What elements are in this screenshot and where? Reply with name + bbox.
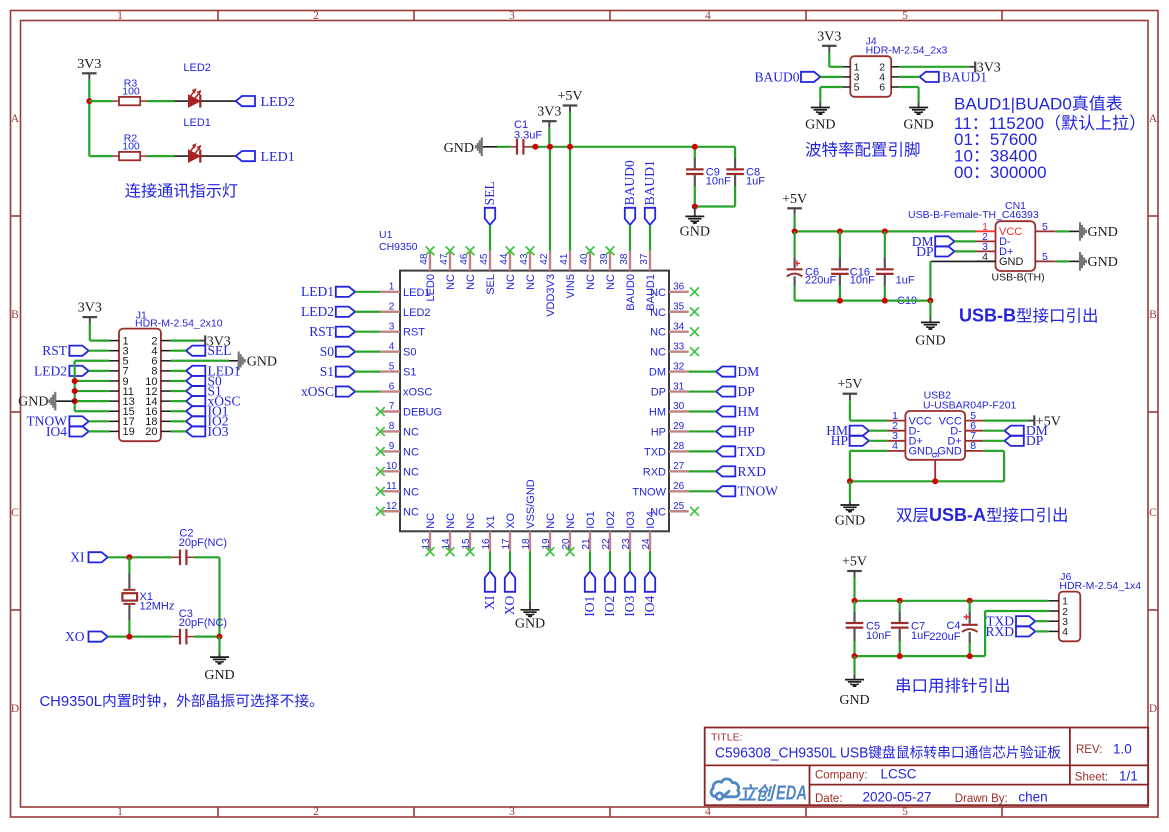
- svg-text:VSS/GND: VSS/GND: [525, 479, 537, 529]
- wire 3V3 to J4 pin 1: [829, 52, 842, 67]
- svg-text:NC: NC: [465, 274, 477, 290]
- svg-text:BAUD0: BAUD0: [622, 160, 637, 205]
- svg-text:NC: NC: [650, 347, 666, 359]
- power flag 3V3 (J1 pin2): [199, 334, 231, 349]
- connector USB2 U-USBAR04P-F201 body: [887, 389, 1016, 481]
- net flag LED1: [236, 150, 295, 165]
- svg-text:GND: GND: [805, 117, 835, 132]
- svg-text:HM: HM: [649, 407, 666, 419]
- svg-text:100: 100: [122, 141, 140, 153]
- svg-text:3V3: 3V3: [817, 29, 841, 44]
- svg-text:LED2: LED2: [183, 62, 211, 74]
- pin 2 LED2 (U1 left): [380, 301, 430, 318]
- pin 28 TXD (U1 right): [644, 441, 689, 458]
- capacitor C5 10nF: [846, 601, 892, 656]
- wire U1 pin 27 to RXD: [689, 470, 716, 472]
- svg-text:GND: GND: [247, 354, 277, 369]
- svg-text:连接通讯指示灯: 连接通讯指示灯: [125, 183, 238, 201]
- pin 48 LED0 (U1 top): [419, 251, 437, 302]
- junction C1 rail: [532, 144, 538, 150]
- wire U1 pin 21 to IO1: [589, 551, 591, 571]
- wire CN1 bottom GND rail: [795, 300, 931, 302]
- svg-text:RXD: RXD: [643, 466, 666, 478]
- svg-text:3.3uF: 3.3uF: [514, 129, 542, 141]
- svg-text:LED2: LED2: [261, 95, 295, 110]
- net flag LED2 (J1 pin7): [34, 363, 89, 378]
- ground GND (J4 pin6): [903, 101, 933, 132]
- svg-text:IO1: IO1: [585, 511, 597, 529]
- net flag DM (USB2 pin6): [1005, 423, 1048, 438]
- capacitor C2 20pF(NC): [172, 528, 227, 566]
- svg-text:16: 16: [481, 538, 492, 550]
- junction +5V rail: [567, 144, 573, 150]
- net flag LED1 (U1 left): [301, 284, 355, 299]
- svg-text:RXD: RXD: [738, 464, 767, 479]
- svg-text:5: 5: [1042, 221, 1048, 233]
- resistor R2 100: [113, 133, 148, 161]
- ground GND (C9/C8): [680, 207, 710, 240]
- connector CN1 USB-B-Female-TH_C46393 body: [908, 200, 1055, 283]
- wire RST to U1 pin 3: [355, 331, 380, 333]
- net flag IO4 (U1 bottom): [642, 571, 657, 616]
- svg-text:XO: XO: [505, 512, 517, 528]
- svg-text:HDR-M-2.54_2x10: HDR-M-2.54_2x10: [135, 317, 223, 329]
- svg-text:47: 47: [439, 253, 450, 265]
- pin 4 S0 (U1 left): [380, 341, 416, 358]
- net flag XO: [65, 629, 108, 644]
- pin 31 DP (U1 right): [651, 381, 689, 398]
- svg-text:C596308_CH9350L USB键盘鼠标转串口通信芯片: C596308_CH9350L USB键盘鼠标转串口通信芯片验证板: [715, 744, 1061, 761]
- net flag S0 (J1 pin10): [186, 373, 222, 388]
- svg-text:GND: GND: [915, 334, 945, 349]
- svg-text:LCSC: LCSC: [881, 767, 917, 782]
- svg-text:4: 4: [389, 341, 395, 352]
- svg-text:5: 5: [902, 10, 908, 22]
- pin 46 NC (U1 top): [459, 251, 477, 290]
- resistor R3 100: [113, 78, 148, 106]
- crystal X1 12MHz: [122, 557, 174, 636]
- logo EasyEDA: [711, 779, 807, 805]
- wire RST to J1 pin 3: [89, 350, 110, 352]
- pin 45 SEL (U1 top): [479, 251, 497, 295]
- svg-text:2: 2: [313, 806, 319, 818]
- wire 3V3 to R3: [89, 100, 112, 102]
- pin 37 BAUD1 (U1 top): [639, 251, 657, 311]
- svg-text:NC: NC: [403, 486, 419, 498]
- svg-text:XI: XI: [70, 550, 85, 565]
- pin 11 NC (U1 left): [380, 481, 419, 498]
- junctions USB2 ground: [847, 478, 938, 484]
- capacitor C4 220uF: [929, 601, 977, 656]
- svg-text:4: 4: [982, 251, 988, 263]
- svg-text:5: 5: [854, 82, 860, 94]
- capacitor C19 1uF: [876, 231, 917, 306]
- power flag GND (C1): [444, 138, 482, 157]
- wire J4 pin6 to GND: [899, 87, 918, 101]
- svg-text:GND: GND: [839, 693, 869, 708]
- svg-text:11: 11: [386, 481, 397, 492]
- pin 29 HP (U1 right): [651, 421, 689, 438]
- svg-text:SEL: SEL: [485, 274, 497, 295]
- net flag BAUD0 (J4 pin3): [754, 69, 820, 84]
- wire U1 pin 30 to HM: [689, 410, 716, 412]
- net flag DM (CN1 pin2): [912, 234, 955, 249]
- svg-text:46: 46: [459, 253, 470, 265]
- pin 8 NC (U1 left): [380, 421, 419, 438]
- svg-text:42: 42: [539, 253, 550, 265]
- junctions J6 top rail: [852, 598, 973, 604]
- power flag 3V3 (J4 pin1): [817, 29, 841, 52]
- svg-text:双层USB-A型接口引出: 双层USB-A型接口引出: [896, 505, 1069, 525]
- svg-text:2020-05-27: 2020-05-27: [863, 790, 932, 805]
- svg-text:20pF(NC): 20pF(NC): [179, 617, 227, 629]
- svg-text:USB-B-Female-TH_C46393: USB-B-Female-TH_C46393: [908, 209, 1039, 221]
- svg-text:44: 44: [499, 253, 510, 265]
- svg-text:CH9350: CH9350: [379, 241, 418, 253]
- svg-text:RXD: RXD: [985, 624, 1014, 639]
- capacitor C16 10nF: [831, 231, 875, 300]
- pin 44 NC (U1 top): [499, 251, 517, 290]
- svg-text:DM: DM: [649, 367, 666, 379]
- svg-text:1uF: 1uF: [896, 274, 915, 286]
- svg-text:6: 6: [879, 82, 885, 94]
- svg-text:串口用排针引出: 串口用排针引出: [895, 678, 1011, 696]
- svg-text:S0: S0: [320, 344, 335, 359]
- svg-text:GND: GND: [999, 256, 1024, 268]
- svg-text:27: 27: [673, 461, 685, 472]
- svg-text:GND: GND: [835, 513, 865, 528]
- pin 30 HM (U1 right): [649, 401, 689, 418]
- capacitor C3 20pF(NC): [172, 608, 227, 645]
- svg-text:NC: NC: [445, 274, 457, 290]
- power flag GND (J1 pin13): [18, 392, 75, 411]
- svg-text:NC: NC: [465, 513, 477, 529]
- wire J4 pin 4 to BAUD1: [899, 76, 919, 78]
- svg-text:+5V: +5V: [842, 555, 867, 570]
- svg-text:TNOW: TNOW: [632, 486, 666, 498]
- pin 6 xOSC (U1 left): [380, 381, 432, 398]
- wire USB2 pin 6 to DM: [983, 430, 1004, 432]
- svg-text:4: 4: [1062, 626, 1068, 638]
- wire LED2 to U1 pin 2: [355, 311, 380, 313]
- wire USB2 pin 7 to DP: [983, 440, 1004, 442]
- wire U1 pin 23 to IO3: [629, 551, 631, 571]
- wire DP to CN1 pin 3: [955, 250, 976, 252]
- wire BAUD0 to U1 pin 38: [629, 225, 631, 251]
- svg-text:BAUD1: BAUD1: [645, 274, 657, 311]
- wire LED2 to J1 pin 7: [89, 370, 110, 372]
- net flag RXD (J6 pin4): [985, 624, 1035, 639]
- svg-text:4: 4: [705, 10, 711, 22]
- pin 9 NC (U1 left): [380, 441, 419, 458]
- wire RXD to J6 pin 4: [1035, 630, 1048, 632]
- svg-text:SEL: SEL: [208, 343, 232, 358]
- pin 42 VDD3V3 (U1 top): [539, 251, 557, 317]
- svg-text:+5V: +5V: [837, 377, 862, 392]
- wire J1 pin 2 to 3V3: [171, 340, 199, 342]
- svg-text:GND: GND: [903, 117, 933, 132]
- power flag +5V (USB2): [837, 377, 862, 400]
- svg-text:A: A: [11, 113, 20, 125]
- svg-text:DP: DP: [916, 244, 933, 259]
- power flag +5V (to VIN5): [557, 89, 582, 112]
- wire U1 pin 18 to GND: [529, 551, 531, 601]
- title block: [705, 728, 1148, 806]
- svg-text:VDD3V3: VDD3V3: [545, 274, 557, 317]
- net flag HP (USB2 pin3): [831, 433, 869, 448]
- net flag BAUD1 (top): [642, 160, 657, 225]
- net flag IO1 (J1 pin16): [186, 404, 229, 419]
- power flag 3V3 (to VDD3V3): [537, 105, 561, 128]
- net flag IO4 (J1 pin19): [46, 424, 89, 439]
- net flag LED2 (U1 left): [301, 304, 355, 319]
- svg-text:USB-B型接口引出: USB-B型接口引出: [959, 306, 1099, 326]
- connector J4 HDR-M-2.54_2x3 body: [842, 35, 947, 96]
- svg-text:立创: 立创: [739, 784, 777, 804]
- svg-text:8: 8: [970, 440, 976, 452]
- wire LED1 to U1 pin 1: [355, 291, 380, 293]
- svg-text:XO: XO: [502, 595, 517, 615]
- svg-text:5: 5: [389, 361, 395, 372]
- svg-text:C: C: [11, 507, 19, 519]
- pin 16 X1 (U1 bottom): [481, 515, 497, 551]
- svg-text:RST: RST: [309, 324, 335, 339]
- svg-text:2: 2: [389, 301, 395, 312]
- svg-text:NC: NC: [585, 274, 597, 290]
- svg-text:36: 36: [673, 282, 685, 293]
- caption 双层USB-A型接口引出: [896, 505, 1069, 525]
- svg-text:21: 21: [581, 538, 592, 550]
- wire USB2 pin 5 to +5V: [983, 420, 1028, 422]
- junction C9 bottom: [692, 204, 698, 210]
- net flag xOSC (U1 left): [301, 384, 355, 399]
- svg-text:1.0: 1.0: [1113, 742, 1132, 757]
- svg-text:3: 3: [509, 10, 515, 22]
- wire BAUD1 to U1 pin 37: [649, 225, 651, 251]
- svg-text:NC: NC: [445, 513, 457, 529]
- svg-text:HP: HP: [831, 433, 848, 448]
- wire 3V3 to U1 pin 42: [548, 128, 551, 251]
- svg-text:LED1: LED1: [183, 117, 211, 129]
- svg-text:6: 6: [389, 381, 395, 392]
- connector J1 HDR-M-2.54_2x10 body: [110, 309, 223, 441]
- wire TNOW to J1 pin 17: [89, 420, 110, 422]
- caption crystal note: [40, 693, 324, 710]
- svg-text:1: 1: [117, 806, 123, 818]
- svg-text:BAUD1: BAUD1: [942, 69, 987, 84]
- svg-text:NC: NC: [525, 274, 537, 290]
- svg-text:5: 5: [902, 806, 908, 818]
- wire J1 pin 6 to GND: [171, 360, 238, 362]
- no-connect marks U1 right pins 36-33,25: [690, 287, 699, 515]
- svg-text:C: C: [1149, 507, 1157, 519]
- net flag SEL (top): [482, 181, 497, 225]
- svg-text:GND: GND: [515, 617, 545, 632]
- wire J1 pin 20 to IO3: [171, 430, 187, 432]
- wire R2 to LED1: [147, 155, 175, 157]
- pin 24 IO4 (U1 bottom): [641, 511, 657, 551]
- wire S0 to U1 pin 4: [355, 351, 380, 353]
- pin 25 NC (U1 right): [650, 501, 689, 518]
- net flag S1 (U1 left): [320, 364, 355, 379]
- svg-text:23: 23: [621, 538, 632, 550]
- svg-text:U1: U1: [379, 229, 393, 241]
- svg-text:00：300000: 00：300000: [954, 163, 1047, 182]
- svg-text:NC: NC: [545, 513, 557, 529]
- svg-text:Drawn By:: Drawn By:: [955, 793, 1008, 805]
- no-connect marks U1 left pins 7-12: [376, 407, 385, 516]
- junction C3/GND: [217, 634, 223, 640]
- svg-text:chen: chen: [1018, 790, 1047, 805]
- wire J6 bottom GND rail: [855, 655, 986, 657]
- junction C9 top: [692, 144, 698, 150]
- power flag 3V3 (LED circuit): [77, 57, 101, 80]
- svg-text:BAUD1: BAUD1: [642, 160, 657, 205]
- pin 32 DM (U1 right): [649, 361, 689, 378]
- wire J6 pin2 to GND rail: [985, 611, 1049, 656]
- wire S1 to U1 pin 5: [355, 371, 380, 373]
- net flag LED1 (J1 pin8): [186, 363, 241, 378]
- svg-text:20pF(NC): 20pF(NC): [179, 537, 227, 549]
- svg-text:3V3: 3V3: [77, 57, 101, 72]
- wire xOSC to U1 pin 6: [355, 390, 380, 392]
- svg-text:IO4: IO4: [645, 511, 657, 529]
- svg-text:TXD: TXD: [738, 444, 766, 459]
- svg-text:GND: GND: [1088, 255, 1118, 270]
- svg-text:S1: S1: [403, 367, 416, 379]
- ground GND (CN1): [915, 301, 945, 349]
- ground GND (J6): [839, 656, 869, 708]
- net flag IO3 (J1 pin20): [186, 424, 229, 439]
- wire U1 pin 31 to DP: [689, 390, 716, 392]
- svg-text:3V3: 3V3: [537, 105, 561, 120]
- svg-text:SEL: SEL: [482, 181, 497, 205]
- svg-text:GND: GND: [204, 668, 234, 683]
- wire U1 pin 24 to IO4: [649, 551, 651, 571]
- power flag +5V (J6): [842, 555, 867, 578]
- svg-text:NC: NC: [403, 446, 419, 458]
- pin 3 RST (U1 left): [380, 321, 425, 338]
- caption USB-B型接口引出: [959, 306, 1099, 326]
- svg-text:19: 19: [123, 426, 135, 438]
- LED diode LED2: [175, 62, 236, 108]
- svg-text:1: 1: [117, 10, 123, 22]
- svg-text:2: 2: [313, 10, 319, 22]
- svg-text:17: 17: [501, 538, 512, 550]
- junction XO: [126, 634, 132, 640]
- svg-text:GND: GND: [1088, 225, 1118, 240]
- svg-text:波特率配置引脚: 波特率配置引脚: [805, 142, 921, 160]
- svg-text:BAUD1|BUAD0真值表: BAUD1|BUAD0真值表: [954, 94, 1123, 113]
- wire U1 pin 29 to HP: [689, 430, 716, 432]
- svg-text:29: 29: [673, 421, 685, 432]
- pin 22 IO2 (U1 bottom): [601, 511, 617, 551]
- svg-text:220uF: 220uF: [805, 274, 836, 286]
- svg-text:IO2: IO2: [602, 596, 617, 617]
- net flag S0 (U1 left): [320, 344, 355, 359]
- pin 21 IO1 (U1 bottom): [581, 511, 597, 551]
- svg-text:41: 41: [559, 253, 570, 265]
- net flag IO2 (J1 pin18): [186, 414, 229, 429]
- net flag TNOW (J1 pin17): [27, 414, 89, 429]
- op-amp U1 CH9350 body: [379, 229, 669, 531]
- svg-text:LED2: LED2: [403, 307, 431, 319]
- net flag HP (U1 right): [716, 424, 755, 439]
- svg-text:220uF: 220uF: [929, 631, 960, 643]
- power flag 3V3 (J4 pin2): [969, 61, 1001, 76]
- power flag +5V (CN1): [782, 192, 807, 215]
- pin 20 NC (U1 bottom): [561, 513, 577, 551]
- svg-text:HP: HP: [651, 426, 666, 438]
- svg-text:1/1: 1/1: [1119, 768, 1138, 783]
- net flag DP (USB2 pin7): [1005, 433, 1044, 448]
- svg-text:IO2: IO2: [605, 511, 617, 529]
- svg-text:TITLE:: TITLE:: [711, 731, 743, 743]
- svg-text:34: 34: [673, 321, 685, 332]
- svg-text:NC: NC: [425, 513, 437, 529]
- pin 7 DEBUG (U1 left): [380, 401, 442, 418]
- wire main +5V rail: [530, 146, 735, 148]
- junctions J6 bottom rail: [852, 653, 973, 659]
- svg-text:D: D: [11, 703, 19, 715]
- caption 串口用排针引出: [895, 678, 1011, 696]
- wire U1 pin 16 to XI: [489, 551, 491, 571]
- connector J6 HDR-M-2.54_1x4 body: [1049, 571, 1142, 641]
- svg-text:48: 48: [419, 253, 430, 265]
- svg-text:4: 4: [892, 440, 898, 452]
- svg-text:7: 7: [389, 401, 395, 412]
- svg-text:IO4: IO4: [46, 424, 67, 439]
- junctions CN1 top rail: [792, 228, 888, 234]
- svg-text:NC: NC: [403, 426, 419, 438]
- svg-text:X1: X1: [485, 515, 497, 528]
- capacitor C8 1uF: [726, 147, 765, 207]
- wire C9/C8 bottoms: [695, 205, 735, 207]
- net flag RST (U1 left): [309, 324, 355, 339]
- svg-text:39: 39: [599, 253, 610, 265]
- pin 1 LED1 (U1 left): [380, 282, 430, 299]
- ground GND (U1 VSS): [515, 601, 545, 632]
- svg-text:GND: GND: [680, 225, 710, 240]
- svg-text:DP: DP: [738, 384, 755, 399]
- wire SEL to U1 pin 45: [489, 225, 491, 251]
- wire J1 pin 18 to IO2: [171, 420, 187, 422]
- net flag DP (CN1 pin3): [916, 244, 954, 259]
- wire J4 pin 2 to 3V3: [899, 66, 968, 68]
- svg-text:22: 22: [601, 538, 612, 550]
- wire J1 pin 12 to S1: [171, 390, 187, 392]
- pin 33 NC (U1 right): [650, 341, 689, 358]
- svg-text:IO4: IO4: [642, 595, 657, 616]
- svg-text:RST: RST: [403, 327, 425, 339]
- svg-text:TXD: TXD: [644, 446, 666, 458]
- wire U1 pin 26 to TNOW: [689, 490, 716, 492]
- wire 3V3 to R2: [89, 155, 112, 157]
- svg-text:10nF: 10nF: [866, 630, 891, 642]
- svg-text:D: D: [1149, 703, 1157, 715]
- wire CN1 pin4 to GND rail: [930, 261, 975, 300]
- svg-text:20: 20: [145, 426, 157, 438]
- power flag GND (CN1 pin5 bottom): [1055, 252, 1118, 271]
- power flag GND (CN1 pin5 top): [1055, 222, 1118, 241]
- svg-text:31: 31: [673, 381, 685, 392]
- svg-text:3V3: 3V3: [78, 301, 102, 316]
- svg-text:DP: DP: [651, 387, 666, 399]
- no-connect marks U1 top pins 48,47,46,44,43,40,39: [426, 246, 615, 255]
- pin 39 NC (U1 top): [599, 251, 617, 290]
- LED diode LED1: [175, 117, 236, 163]
- net flag TXD (J6 pin3): [986, 614, 1035, 629]
